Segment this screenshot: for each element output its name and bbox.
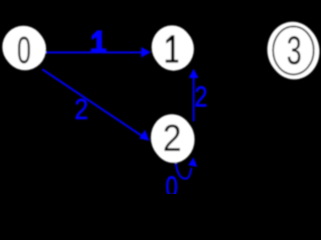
svg-text:3: 3 (287, 29, 302, 73)
svg-text:0: 0 (166, 170, 178, 194)
svg-text:0: 0 (17, 29, 31, 72)
svg-text:2: 2 (163, 117, 182, 160)
svg-text:2: 2 (75, 93, 89, 125)
svg-text:2: 2 (195, 80, 208, 112)
